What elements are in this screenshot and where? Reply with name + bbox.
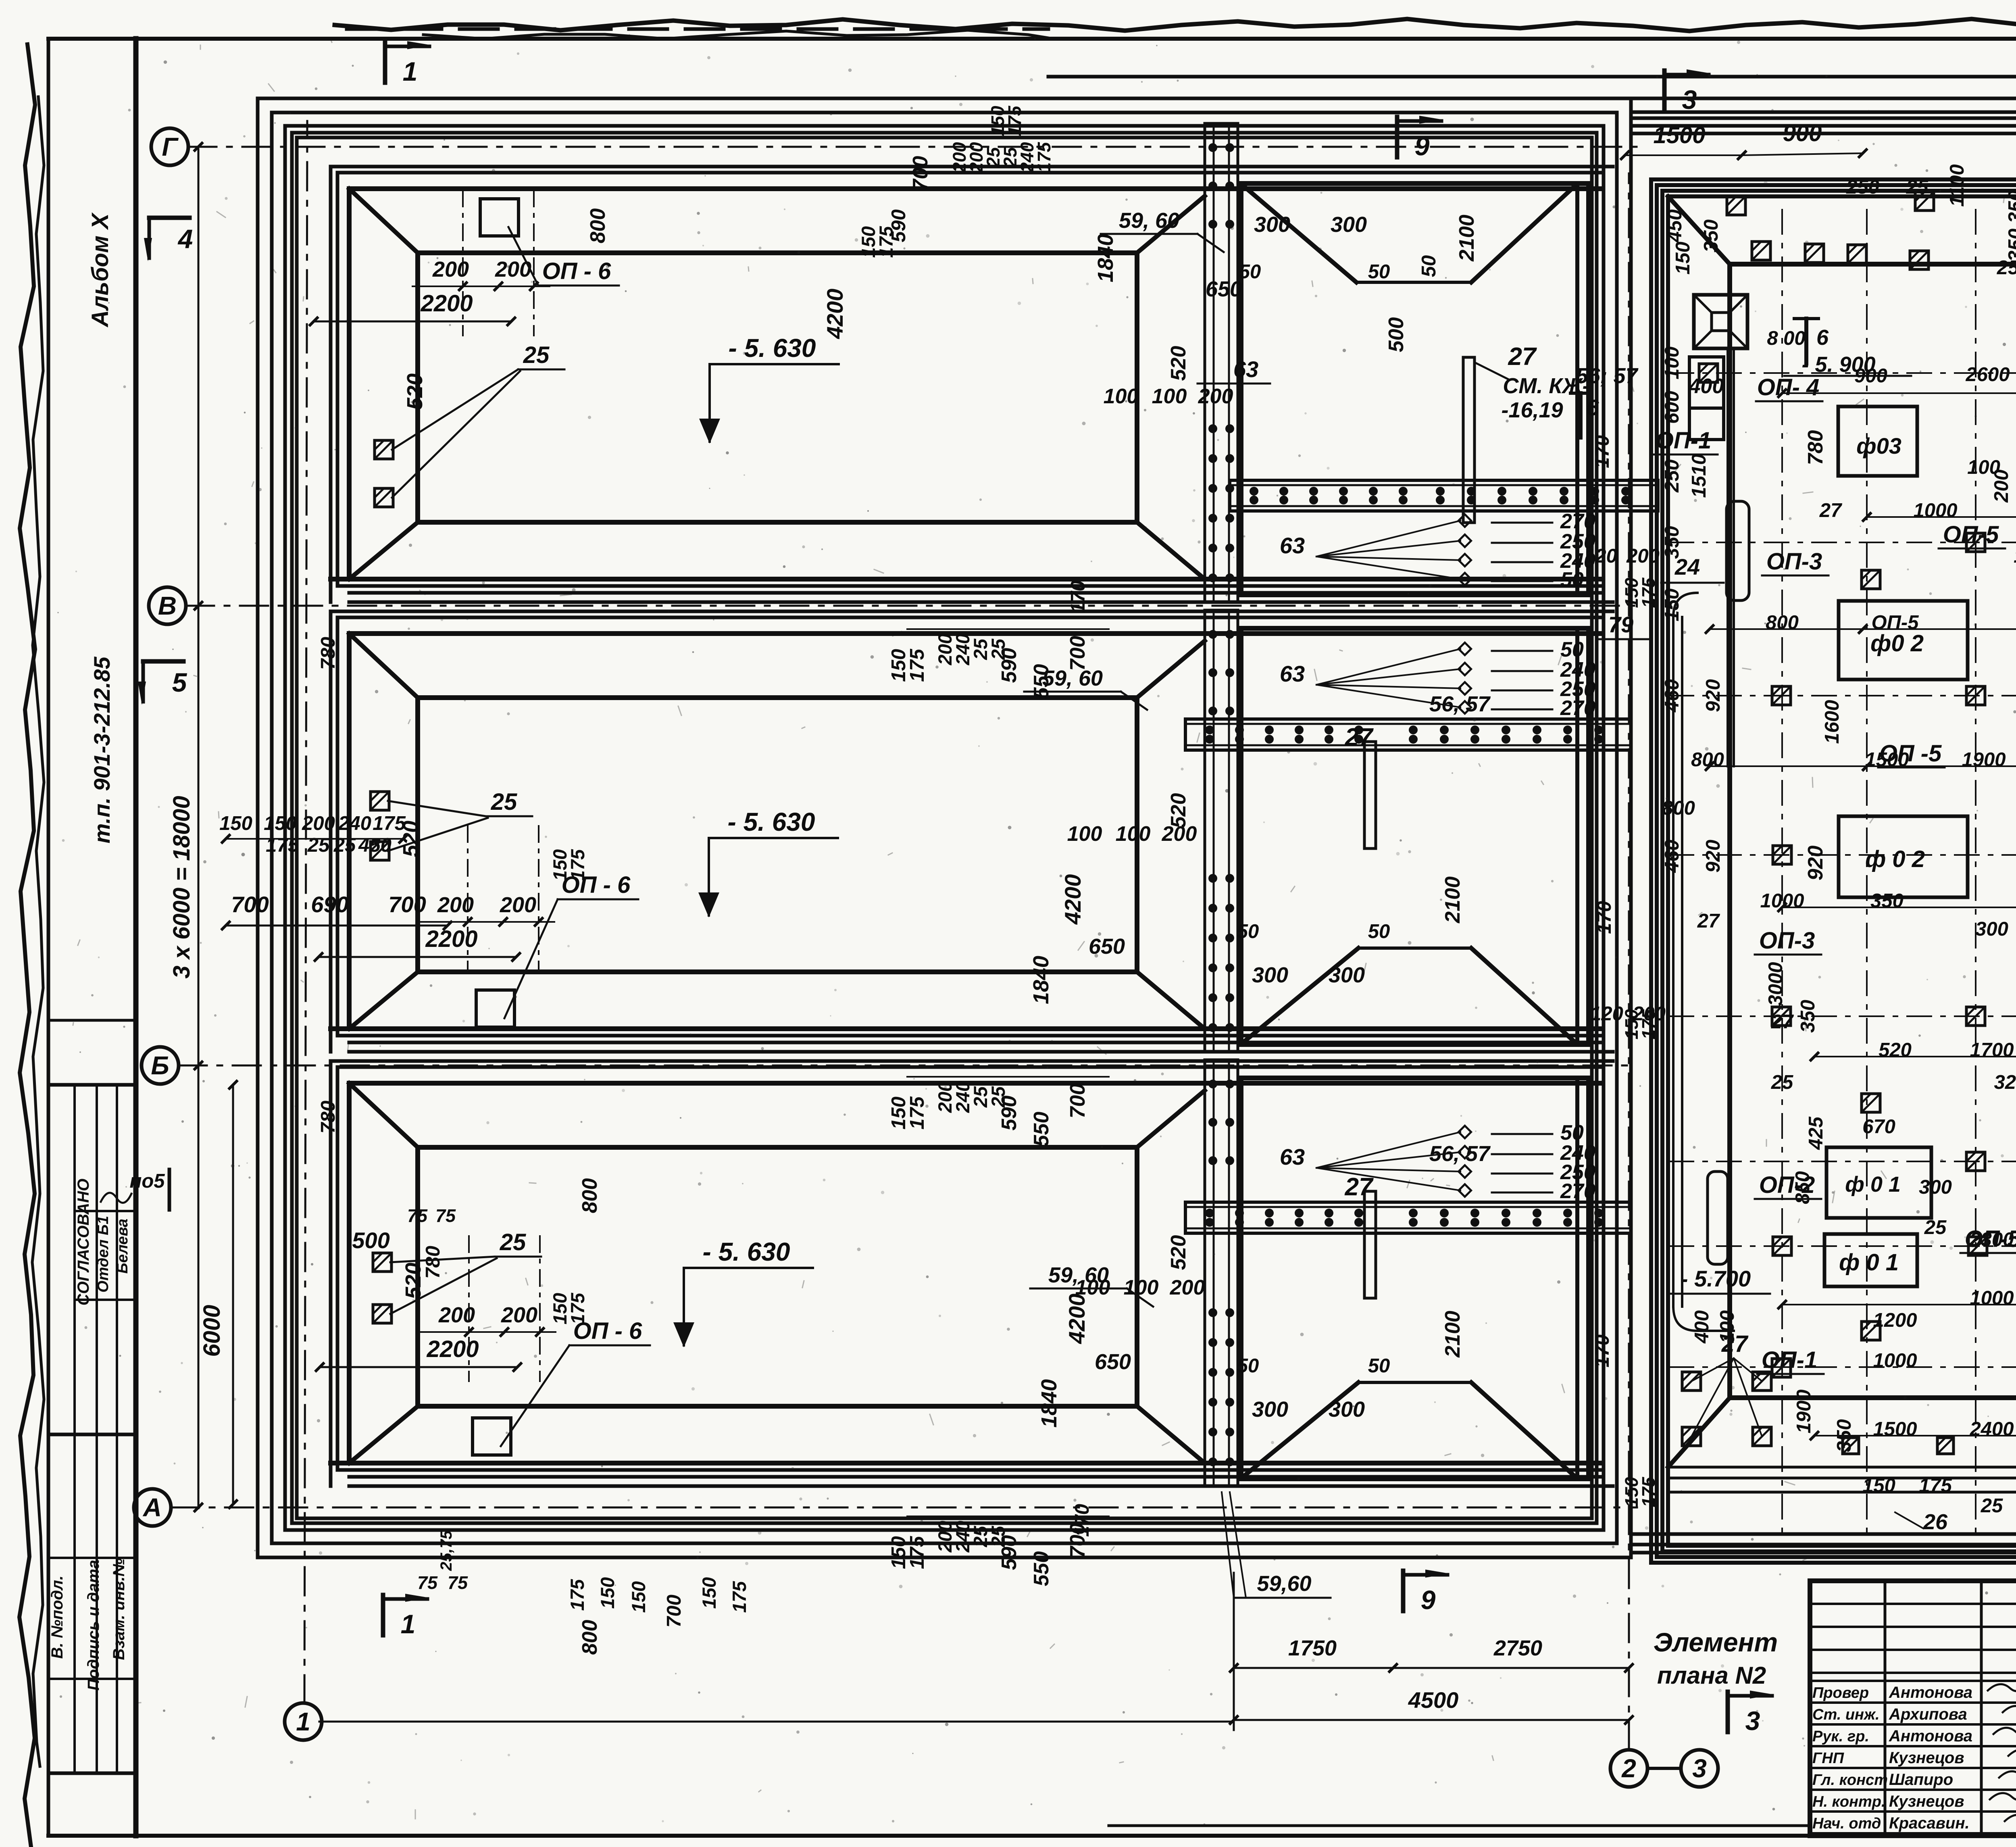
tank 3 OP-6 pocket xyxy=(473,1418,511,1455)
svg-text:175: 175 xyxy=(266,834,299,856)
svg-text:ОП-5: ОП-5 xyxy=(1872,612,1919,634)
svg-text:650: 650 xyxy=(1206,277,1242,301)
section mark 5 left xyxy=(143,659,183,664)
svg-text:27: 27 xyxy=(1508,343,1537,371)
svg-text:800: 800 xyxy=(578,1620,602,1655)
svg-text:63: 63 xyxy=(1280,661,1305,686)
svg-text:700: 700 xyxy=(231,892,269,917)
svg-text:170: 170 xyxy=(1071,1504,1093,1537)
svg-text:4200: 4200 xyxy=(1064,1294,1089,1345)
svg-text:27: 27 xyxy=(1345,723,1374,751)
svg-text:920: 920 xyxy=(1702,679,1724,712)
svg-text:520: 520 xyxy=(401,1263,425,1299)
svg-text:500: 500 xyxy=(352,1228,389,1253)
top inner frame line xyxy=(1048,75,2016,79)
svg-text:175: 175 xyxy=(1638,577,1659,608)
tank 2 hopper slopes xyxy=(1243,948,1358,1042)
left margin table: coordination strip xyxy=(48,1019,136,1022)
middle basin floor rectangle xyxy=(1730,264,2016,1398)
svg-text:1000: 1000 xyxy=(1913,500,1957,521)
bottom dim chain 1750/2750/4500 xyxy=(1234,1667,1629,1669)
svg-text:СОГЛАСОВАНО: СОГЛАСОВАНО xyxy=(75,1179,92,1306)
svg-text:175: 175 xyxy=(1004,105,1025,136)
middle basin inner bottom band xyxy=(1668,1466,2016,1469)
svg-text:300: 300 xyxy=(1329,1397,1365,1422)
svg-text:Элемент: Элемент xyxy=(1654,1627,1778,1657)
svg-text:900: 900 xyxy=(1854,365,1887,387)
svg-text:150: 150 xyxy=(219,813,252,834)
svg-text:780: 780 xyxy=(317,1101,339,1134)
svg-text:59, 60: 59, 60 xyxy=(1119,208,1179,233)
tank 1 dividing strip with studs xyxy=(1205,123,1238,602)
svg-text:27: 27 xyxy=(1345,1173,1374,1201)
tank 1 OP-6 pocket xyxy=(480,199,519,236)
tank 2 walls xyxy=(331,610,1613,613)
svg-text:100: 100 xyxy=(1067,822,1102,846)
svg-text:175: 175 xyxy=(567,849,588,881)
tank 1 basin floor rectangle with corner slopes xyxy=(349,189,418,253)
svg-text:63: 63 xyxy=(1280,1144,1305,1169)
svg-text:3200: 3200 xyxy=(1994,1072,2016,1093)
names table xyxy=(1884,1581,1887,1836)
svg-text:175: 175 xyxy=(566,1579,588,1611)
svg-text:175: 175 xyxy=(373,813,406,834)
tank 3 walls xyxy=(331,1059,1613,1063)
svg-text:100: 100 xyxy=(1124,1276,1159,1299)
axis circle B (left) xyxy=(142,1047,179,1084)
svg-text:1: 1 xyxy=(401,1609,416,1639)
box f02 second xyxy=(1839,816,1968,897)
svg-text:1750: 1750 xyxy=(1288,1636,1337,1660)
svg-text:700: 700 xyxy=(1066,1084,1089,1119)
svg-text:2200: 2200 xyxy=(426,1336,479,1362)
svg-text:2100: 2100 xyxy=(1441,1311,1464,1358)
middle basin outer wall band xyxy=(1651,179,2016,1563)
svg-text:1840: 1840 xyxy=(1093,234,1118,282)
svg-text:700: 700 xyxy=(909,156,932,191)
long baseline from axis 1 xyxy=(319,1721,1232,1723)
svg-text:25: 25 xyxy=(500,1229,526,1255)
svg-text:1100: 1100 xyxy=(1946,164,1968,206)
svg-text:ОП-1: ОП-1 xyxy=(1656,427,1711,454)
svg-text:700: 700 xyxy=(388,892,426,917)
svg-text:- 5. 630: - 5. 630 xyxy=(727,807,815,836)
tank 2 dividing strip with studs xyxy=(1205,610,1238,1052)
svg-text:ОП-2: ОП-2 xyxy=(1759,1172,1815,1198)
svg-text:79: 79 xyxy=(1608,612,1633,637)
svg-text:300: 300 xyxy=(1919,1176,1952,1198)
svg-text:780: 780 xyxy=(422,1246,444,1279)
svg-text:ГНП: ГНП xyxy=(1812,1750,1844,1767)
svg-text:2100: 2100 xyxy=(1441,876,1464,923)
svg-text:780: 780 xyxy=(1804,430,1827,465)
svg-text:300: 300 xyxy=(1975,918,2008,940)
svg-text:75: 75 xyxy=(417,1572,438,1593)
svg-text:по5: по5 xyxy=(129,1170,165,1192)
svg-text:50: 50 xyxy=(1237,921,1259,942)
svg-text:Гл. конст: Гл. конст xyxy=(1812,1772,1888,1789)
svg-text:550: 550 xyxy=(1030,664,1053,699)
svg-text:ф 0 1: ф 0 1 xyxy=(1839,1249,1899,1276)
svg-text:700: 700 xyxy=(1066,636,1089,671)
riser lines from pit xyxy=(1727,348,1729,766)
svg-text:Н. контр.: Н. контр. xyxy=(1812,1793,1886,1810)
middle basin bottom outer band xyxy=(1631,1532,2016,1536)
tank 3 hopper slopes xyxy=(1243,1382,1358,1476)
box f01 second xyxy=(1824,1234,1917,1286)
svg-text:27: 27 xyxy=(1771,1011,1794,1033)
box f02 first xyxy=(1839,601,1968,680)
svg-text:6: 6 xyxy=(1816,325,1829,350)
svg-text:250: 250 xyxy=(1661,459,1683,493)
svg-text:300: 300 xyxy=(1331,213,1367,237)
svg-text:250: 250 xyxy=(1846,176,1879,198)
svg-text:200: 200 xyxy=(1632,1003,1666,1025)
svg-text:плана N2: плана N2 xyxy=(1657,1662,1766,1689)
svg-text:270: 270 xyxy=(1560,696,1595,720)
svg-text:1200: 1200 xyxy=(1873,1309,1917,1331)
section mark 9 top xyxy=(1395,117,1400,157)
svg-text:100: 100 xyxy=(1104,385,1139,408)
svg-text:8 00: 8 00 xyxy=(1767,327,1805,349)
svg-text:175: 175 xyxy=(1034,142,1054,172)
tank 3 marker squares 25 xyxy=(373,1253,392,1272)
svg-text:4500: 4500 xyxy=(1408,1687,1459,1713)
svg-text:9: 9 xyxy=(1421,1585,1436,1615)
svg-text:800: 800 xyxy=(1662,797,1695,819)
axis line G xyxy=(188,146,1637,148)
svg-text:1900: 1900 xyxy=(1793,1389,1815,1433)
svg-text:100: 100 xyxy=(1661,346,1683,379)
svg-text:100: 100 xyxy=(1075,1276,1110,1299)
svg-text:2200: 2200 xyxy=(420,290,473,317)
svg-text:-16,19: -16,19 xyxy=(1501,398,1563,422)
tank 1 collector beam with studs xyxy=(1230,480,1658,511)
tank 2 collector beam with studs xyxy=(1185,719,1631,750)
svg-text:27: 27 xyxy=(1721,1331,1749,1357)
svg-text:ОП-3: ОП-3 xyxy=(1759,928,1815,954)
svg-text:175: 175 xyxy=(906,648,928,682)
svg-text:50: 50 xyxy=(1237,1355,1259,1377)
svg-text:26: 26 xyxy=(1923,1510,1948,1534)
svg-text:59,60: 59,60 xyxy=(1257,1572,1311,1596)
svg-text:В. №подл.: В. №подл. xyxy=(48,1576,66,1659)
svg-text:200: 200 xyxy=(1198,385,1233,408)
svg-text:175: 175 xyxy=(875,226,897,258)
svg-text:ф 0 1: ф 0 1 xyxy=(1845,1172,1901,1197)
svg-text:200: 200 xyxy=(302,813,335,834)
svg-text:25: 25 xyxy=(491,789,517,815)
svg-text:590: 590 xyxy=(998,1096,1021,1131)
svg-text:ф 0 2: ф 0 2 xyxy=(1865,846,1925,872)
svg-text:Шапиро: Шапиро xyxy=(1889,1771,1953,1789)
tank 2 OP-6 pocket xyxy=(476,990,514,1027)
svg-text:240: 240 xyxy=(338,813,371,834)
svg-text:600: 600 xyxy=(1661,391,1683,424)
svg-text:300: 300 xyxy=(1252,1397,1288,1422)
svg-text:200: 200 xyxy=(495,257,531,281)
svg-text:670: 670 xyxy=(1862,1116,1895,1138)
svg-text:25: 25 xyxy=(333,834,356,856)
svg-text:450: 450 xyxy=(1664,209,1686,243)
svg-text:9: 9 xyxy=(1415,131,1430,161)
svg-text:25,75: 25,75 xyxy=(437,1530,455,1571)
svg-text:150: 150 xyxy=(597,1577,618,1609)
tank 2 right connection walls xyxy=(1137,641,1205,698)
box 400 below pit xyxy=(1689,357,1724,408)
svg-text:500: 500 xyxy=(1385,317,1408,352)
svg-text:75: 75 xyxy=(448,1572,468,1593)
svg-text:520: 520 xyxy=(1167,1235,1190,1270)
svg-text:175: 175 xyxy=(906,1536,928,1569)
svg-text:63: 63 xyxy=(1233,356,1258,382)
svg-text:150: 150 xyxy=(628,1581,649,1613)
top wall band continues over basin xyxy=(1631,97,2016,100)
svg-text:2400: 2400 xyxy=(1969,1418,2014,1440)
tank 3 basin floor rectangle with corner slopes xyxy=(349,1083,418,1147)
svg-text:1000: 1000 xyxy=(1970,1287,2014,1309)
svg-text:6: 6 xyxy=(1586,395,1599,420)
svg-text:50: 50 xyxy=(1368,261,1390,283)
svg-text:650: 650 xyxy=(1095,1350,1131,1374)
tank 3 gate slot 27 xyxy=(1364,1191,1376,1298)
axis circle A (left) xyxy=(134,1489,171,1526)
section mark 9 bottom xyxy=(1401,1571,1406,1611)
hopper pit with cross (top) xyxy=(1694,295,1747,348)
tank 1 hopper slopes xyxy=(1243,186,1356,282)
basin interior axis lines xyxy=(1781,210,1783,1532)
axis circle 1 (bottom) xyxy=(285,1703,322,1740)
svg-text:150: 150 xyxy=(264,813,297,834)
svg-text:100: 100 xyxy=(1152,385,1187,408)
svg-text:1700: 1700 xyxy=(1970,1039,2014,1061)
svg-text:50: 50 xyxy=(1560,568,1584,592)
svg-text:150: 150 xyxy=(698,1577,720,1609)
torn paper left edge xyxy=(19,44,35,1847)
svg-text:56; 57: 56; 57 xyxy=(1576,364,1639,388)
svg-text:25: 25 xyxy=(1771,1072,1793,1093)
tank 1 right connection walls xyxy=(1137,196,1205,253)
svg-text:120: 120 xyxy=(1584,545,1617,567)
svg-text:Взам. инв.№: Взам. инв.№ xyxy=(110,1558,128,1660)
svg-text:Рук. гр.: Рук. гр. xyxy=(1812,1728,1869,1745)
svg-text:175: 175 xyxy=(1638,1476,1659,1507)
svg-text:50: 50 xyxy=(1418,255,1440,277)
svg-text:Провер: Провер xyxy=(1812,1684,1869,1701)
svg-text:200: 200 xyxy=(500,893,536,917)
svg-text:Белева: Белева xyxy=(114,1219,131,1274)
scan speckle noise xyxy=(1701,73,1703,75)
svg-text:Нач. отд: Нач. отд xyxy=(1812,1815,1881,1832)
svg-text:550: 550 xyxy=(1030,1551,1053,1586)
svg-text:4200: 4200 xyxy=(1060,874,1085,925)
svg-text:- 5. 630: - 5. 630 xyxy=(702,1237,790,1266)
svg-text:Отдел Б1: Отдел Б1 xyxy=(95,1216,112,1292)
svg-text:- 5. 630: - 5. 630 xyxy=(728,334,816,363)
svg-text:25: 25 xyxy=(1906,176,1929,198)
svg-text:175: 175 xyxy=(1919,1475,1952,1497)
basin dim chains xyxy=(1782,392,2016,394)
svg-text:520: 520 xyxy=(1167,793,1190,828)
section 6 mark basin xyxy=(1804,319,1808,363)
svg-text:920: 920 xyxy=(1804,846,1827,881)
svg-text:800: 800 xyxy=(578,1178,602,1213)
overall 18000 dim line xyxy=(198,149,200,1508)
svg-text:А: А xyxy=(142,1493,162,1522)
svg-text:25: 25 xyxy=(1981,1495,2003,1517)
tank 1 gate slot 27 xyxy=(1463,357,1475,523)
svg-text:780: 780 xyxy=(317,637,339,670)
svg-text:1600: 1600 xyxy=(1821,700,1843,744)
svg-text:Архипова: Архипова xyxy=(1889,1705,1967,1723)
svg-text:520: 520 xyxy=(1167,346,1190,381)
svg-text:75: 75 xyxy=(435,1205,456,1226)
svg-text:350: 350 xyxy=(1700,219,1722,252)
svg-text:ОП- 4: ОП- 4 xyxy=(1757,374,1820,400)
section mark 3 top xyxy=(1662,71,1667,111)
svg-text:175: 175 xyxy=(729,1581,750,1613)
svg-text:400: 400 xyxy=(1691,1310,1713,1344)
svg-text:590: 590 xyxy=(998,648,1021,683)
svg-text:650: 650 xyxy=(1089,934,1125,959)
axis circle 3 (bottom) xyxy=(1681,1750,1718,1787)
svg-text:800: 800 xyxy=(1766,612,1799,634)
svg-text:50: 50 xyxy=(1368,921,1390,942)
svg-text:2750: 2750 xyxy=(1493,1636,1542,1660)
svg-text:920: 920 xyxy=(1702,840,1724,873)
svg-text:2300: 2300 xyxy=(1969,1229,2014,1251)
basin top-left chute lines xyxy=(1672,617,1674,1307)
svg-text:- 5.700: - 5.700 xyxy=(1681,1266,1751,1291)
svg-text:150: 150 xyxy=(1672,242,1694,275)
svg-text:520: 520 xyxy=(403,373,427,410)
svg-text:Ст. инж.: Ст. инж. xyxy=(1812,1706,1880,1723)
svg-text:1500: 1500 xyxy=(1865,749,1909,771)
svg-text:1: 1 xyxy=(296,1707,310,1736)
box f03 xyxy=(1838,407,1917,476)
svg-text:300: 300 xyxy=(1329,963,1365,987)
svg-text:2200: 2200 xyxy=(425,926,477,952)
tank 2 basin floor rectangle with corner slopes xyxy=(349,634,418,698)
slot 24 second xyxy=(1708,1172,1728,1264)
svg-text:100: 100 xyxy=(1116,822,1151,846)
svg-text:350: 350 xyxy=(1797,1000,1819,1033)
svg-text:170: 170 xyxy=(1591,1334,1613,1368)
svg-text:1840: 1840 xyxy=(1029,956,1053,1004)
tank 1 hopper chamber xyxy=(1241,183,1589,595)
tank 3 hopper chamber xyxy=(1241,1078,1589,1479)
svg-text:350: 350 xyxy=(1870,890,1904,912)
svg-text:350: 350 xyxy=(1661,526,1683,559)
axis circle V (left) xyxy=(149,587,186,624)
svg-text:ОП - 6: ОП - 6 xyxy=(542,258,611,284)
svg-text:2: 2 xyxy=(1621,1754,1636,1783)
svg-text:300: 300 xyxy=(1254,213,1290,237)
tank 2 marker squares 25 xyxy=(371,792,389,810)
svg-text:2100: 2100 xyxy=(1455,215,1479,262)
svg-text:170: 170 xyxy=(1593,901,1615,934)
svg-text:1: 1 xyxy=(403,56,418,86)
tank 2 hopper chamber xyxy=(1241,628,1589,1044)
svg-text:175: 175 xyxy=(906,1096,928,1130)
svg-text:Красавин.: Красавин. xyxy=(1889,1814,1970,1832)
svg-text:Альбом X: Альбом X xyxy=(87,212,113,328)
svg-text:ОП-3: ОП-3 xyxy=(1766,548,1822,575)
svg-text:25: 25 xyxy=(1997,257,2016,279)
svg-text:1510: 1510 xyxy=(1688,454,1710,498)
svg-text:Б: Б xyxy=(151,1051,169,1080)
tank 3 collector beam with studs xyxy=(1185,1202,1631,1233)
svg-text:200: 200 xyxy=(501,1303,537,1327)
drawing area inner border xyxy=(133,39,139,1836)
svg-text:700: 700 xyxy=(663,1595,685,1628)
svg-text:3 х 6000 = 18000: 3 х 6000 = 18000 xyxy=(169,796,195,978)
axis circle G (left, top) xyxy=(151,128,188,165)
svg-text:520: 520 xyxy=(1879,1039,1912,1061)
svg-text:175: 175 xyxy=(567,1292,588,1324)
svg-text:63: 63 xyxy=(1280,533,1305,558)
svg-text:200: 200 xyxy=(1170,1276,1205,1299)
svg-text:1840: 1840 xyxy=(1037,1379,1061,1428)
section mark 4 left xyxy=(149,216,190,220)
svg-text:27: 27 xyxy=(1819,500,1843,521)
box f01 first xyxy=(1826,1147,1931,1218)
tank 1 walls xyxy=(331,165,1613,169)
svg-text:50: 50 xyxy=(1239,261,1261,283)
svg-text:1500: 1500 xyxy=(1873,1418,1917,1440)
svg-text:550: 550 xyxy=(1030,1112,1053,1147)
svg-text:50: 50 xyxy=(1368,1355,1390,1377)
slot 24 xyxy=(1727,501,1749,600)
title block outer xyxy=(1810,1581,2016,1836)
floor-edge hatch marks bottom xyxy=(1843,1438,1859,1454)
svg-text:2600: 2600 xyxy=(1965,364,2010,386)
middle basin corner slopes xyxy=(1668,196,1730,264)
svg-text:200: 200 xyxy=(1991,469,2012,503)
svg-text:ф0 2: ф0 2 xyxy=(1870,630,1924,657)
svg-text:75: 75 xyxy=(407,1205,428,1226)
torn paper top edge xyxy=(335,19,2016,31)
svg-text:1900: 1900 xyxy=(1962,749,2006,771)
svg-text:3: 3 xyxy=(1692,1754,1707,1783)
svg-text:6000: 6000 xyxy=(199,1305,225,1357)
section mark 1 bottom xyxy=(381,1595,385,1635)
svg-text:690: 690 xyxy=(311,892,348,917)
svg-text:170: 170 xyxy=(1067,580,1089,613)
svg-text:Кузнецов: Кузнецов xyxy=(1889,1749,1964,1767)
tank 3 dividing strip with studs xyxy=(1205,1060,1238,1486)
tank 2 gate slot 27 xyxy=(1364,742,1376,848)
svg-text:450: 450 xyxy=(358,834,392,856)
svg-text:590: 590 xyxy=(998,1535,1021,1570)
left margin table: inv / signature strip xyxy=(48,1434,136,1773)
svg-text:5: 5 xyxy=(172,667,187,697)
axis circle 2 (bottom) xyxy=(1610,1750,1647,1787)
svg-text:270: 270 xyxy=(1560,1180,1595,1203)
svg-text:170: 170 xyxy=(1591,435,1613,468)
svg-text:3000: 3000 xyxy=(1765,962,1787,1006)
svg-text:Антонова: Антонова xyxy=(1889,1684,1972,1701)
svg-text:4: 4 xyxy=(177,224,193,254)
tank 3 right connection walls xyxy=(1137,1090,1205,1147)
svg-text:800: 800 xyxy=(586,208,610,244)
svg-text:Кузнецов: Кузнецов xyxy=(1889,1793,1964,1810)
section mark 1 top xyxy=(383,42,387,83)
svg-text:300: 300 xyxy=(1252,963,1288,987)
svg-text:25: 25 xyxy=(523,342,550,368)
svg-text:т.п. 901-3-212.85: т.п. 901-3-212.85 xyxy=(89,657,115,844)
basin bottom anchor cluster xyxy=(1682,1372,1701,1390)
